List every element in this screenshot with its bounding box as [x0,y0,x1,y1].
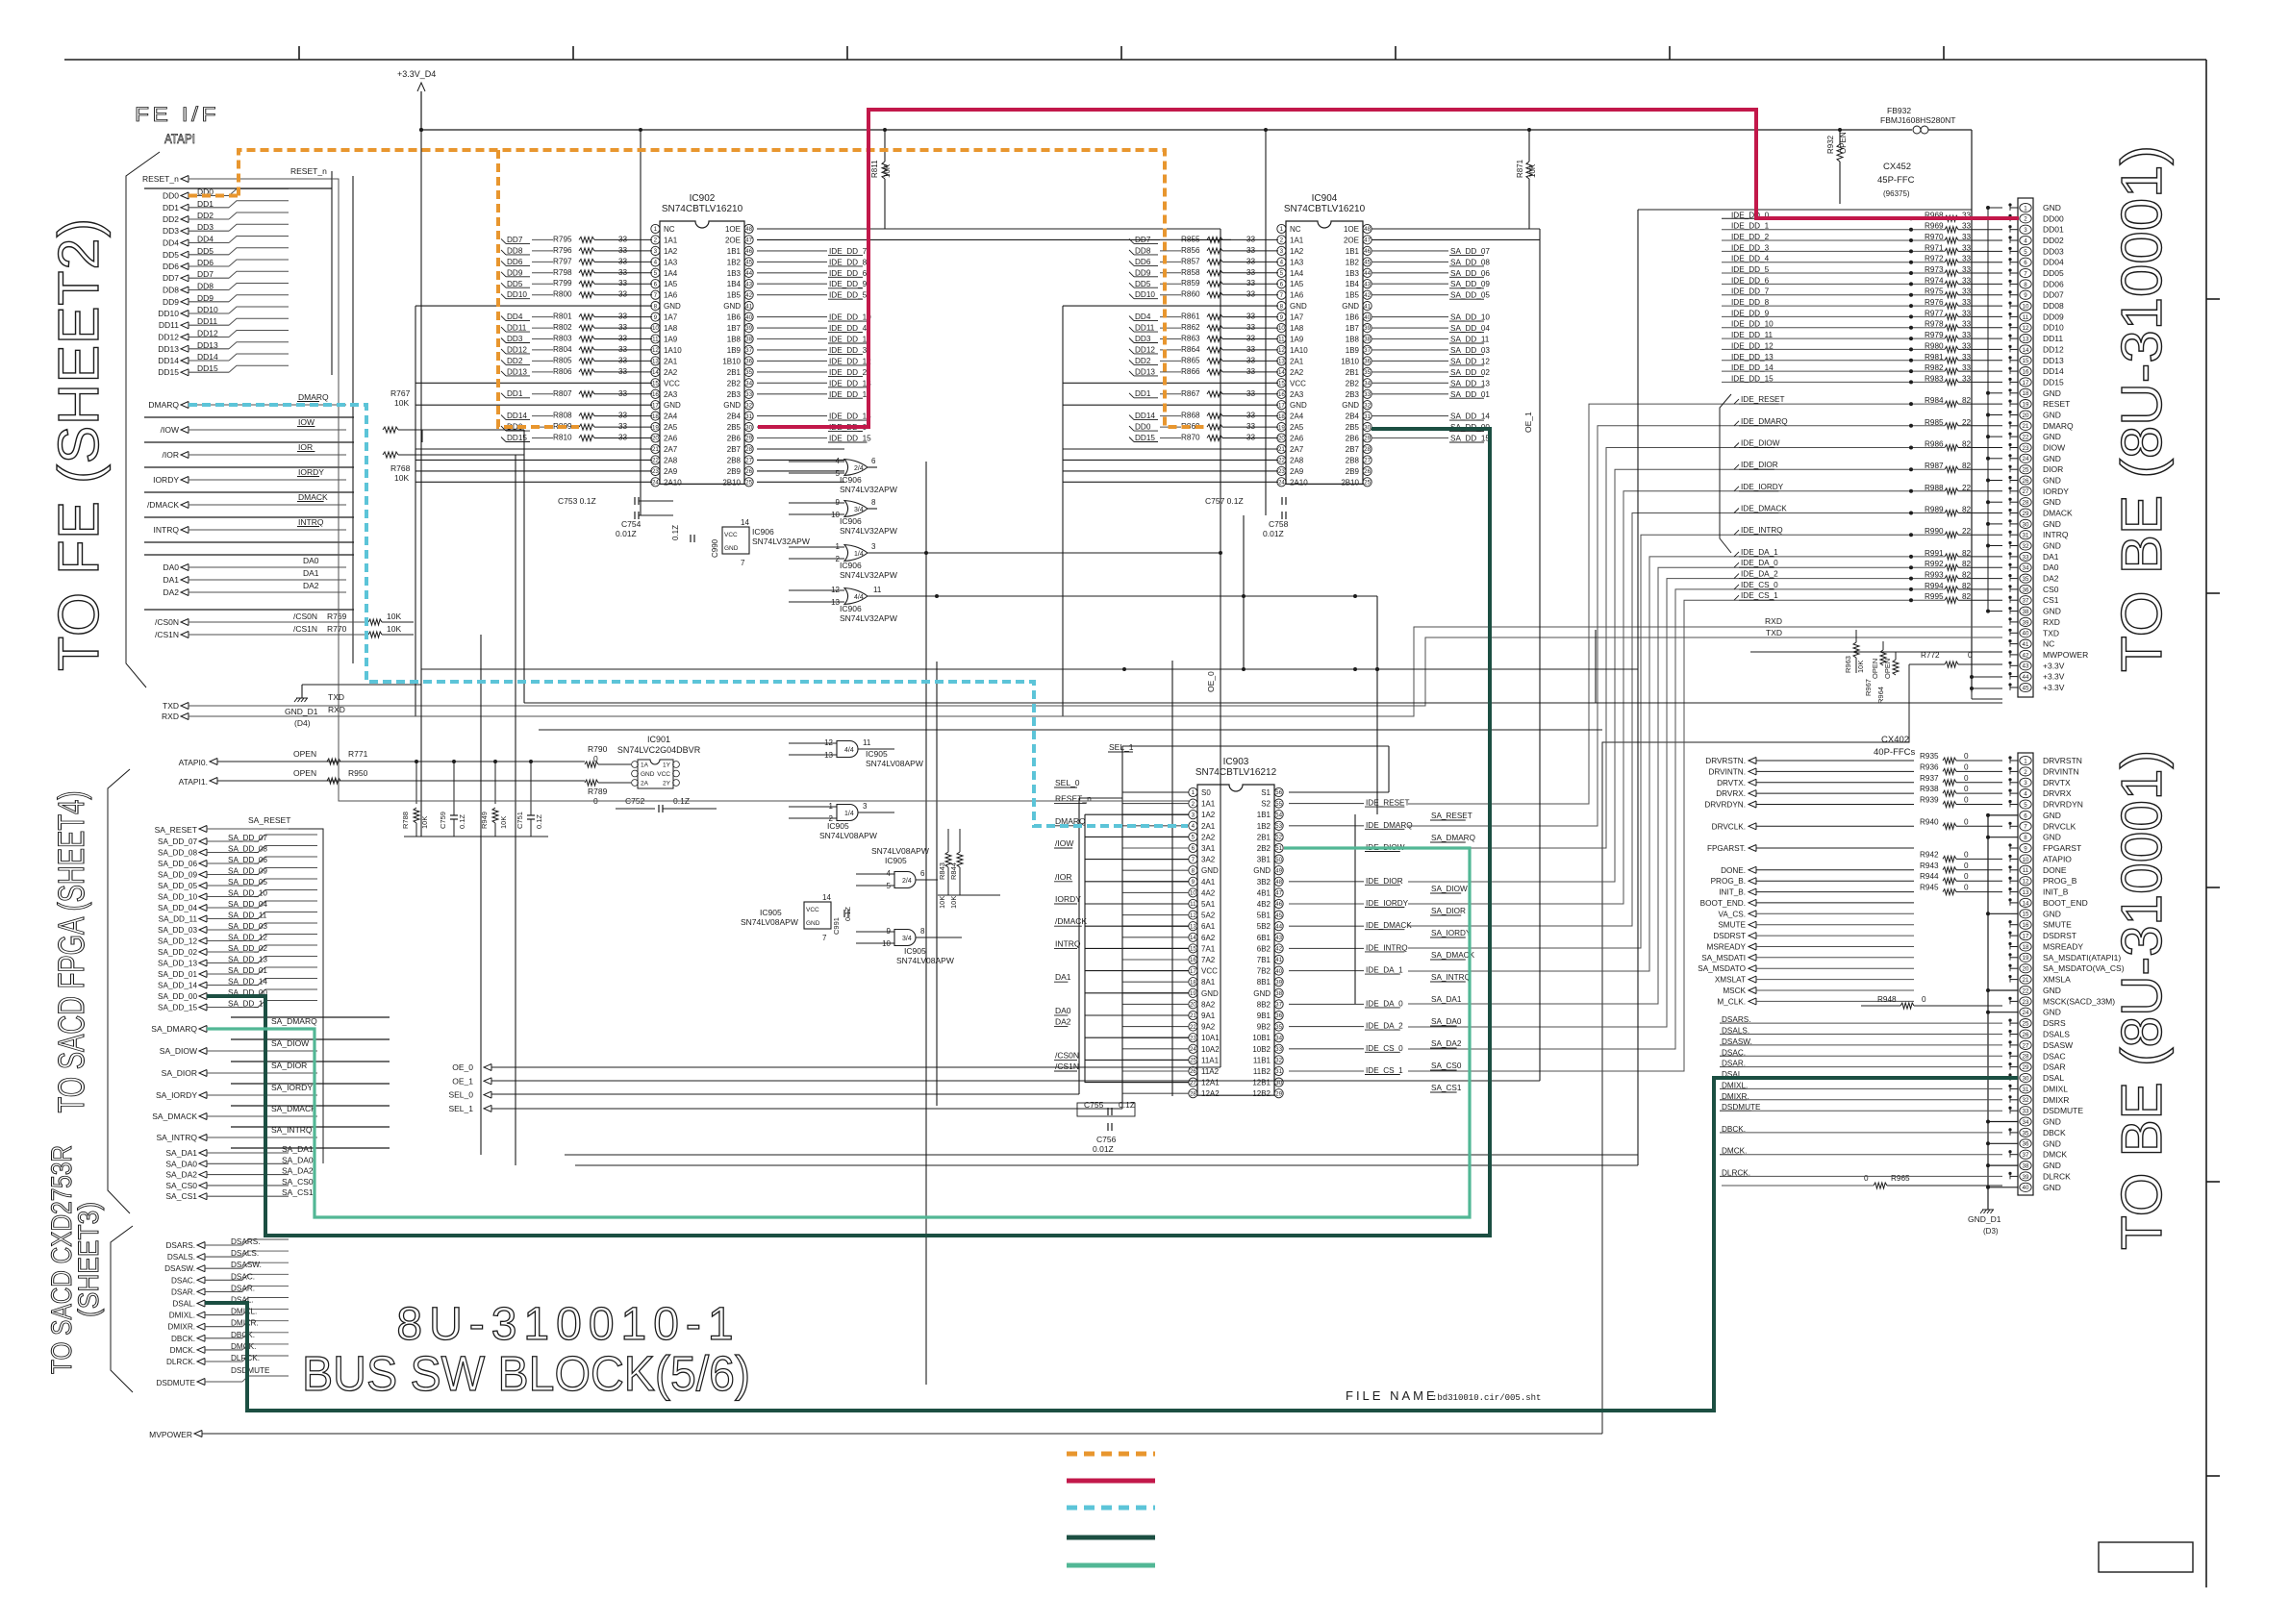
svg-text:10: 10 [1278,325,1285,332]
svg-text:INIT_B: INIT_B [2043,887,2069,897]
svg-text:21: 21 [2023,423,2029,430]
svg-text:NC: NC [2043,639,2054,649]
svg-text:8: 8 [1192,867,1195,874]
svg-text:26: 26 [745,468,752,475]
IC902 GND/VCC/2A7-2A10 stubs to rail [415,305,652,307]
CX452 pin 15 DD13 [2020,356,2031,364]
svg-text:GND: GND [723,302,741,311]
svg-text:5A1: 5A1 [1201,900,1216,909]
svg-text:53: 53 [1275,823,1282,830]
svg-text:16: 16 [652,391,659,398]
svg-text:DA0: DA0 [303,556,319,565]
IC905 gate 3/4 [894,930,916,946]
svg-text:DD2: DD2 [163,214,179,224]
svg-text:1A2: 1A2 [1290,247,1304,256]
CX402 pin 26 DSALS [2020,1030,2031,1038]
C991 0.1Z [843,910,845,917]
CX452 pin 21 DMARQ [2020,421,2031,430]
svg-text:IDE_INTRQ: IDE_INTRQ [1366,943,1408,952]
svg-text:1A1: 1A1 [1201,800,1216,809]
svg-text:SA_DD_12: SA_DD_12 [228,934,267,942]
CX402 pin 34 GND [2020,1117,2031,1126]
svg-text:42: 42 [1364,292,1371,299]
svg-text:GND: GND [2043,1008,2061,1017]
svg-text:SA_DD_09: SA_DD_09 [1450,280,1490,288]
svg-text:R855: R855 [1181,235,1200,243]
svg-text:S2: S2 [1261,800,1271,809]
svg-text:31: 31 [2023,533,2029,539]
svg-text:SA_DD_03: SA_DD_03 [1450,346,1490,355]
svg-text:IDE_DD_14: IDE_DD_14 [1731,363,1774,372]
svg-text:DD15: DD15 [2043,377,2064,387]
svg-text:0.1Z: 0.1Z [671,525,680,540]
svg-text:28: 28 [1364,446,1371,453]
svg-text:/CS1N: /CS1N [155,630,179,639]
CX402 pin 3 DRVTX [2020,778,2031,787]
svg-text:TXD: TXD [1766,628,1782,637]
svg-text:41: 41 [745,303,752,310]
svg-text:1B8: 1B8 [727,336,742,344]
svg-text:IC906: IC906 [840,561,862,570]
svg-text:1A1: 1A1 [1290,236,1304,244]
net label IDE_DD_10 [757,316,827,318]
svg-text:IDE_DD_4: IDE_DD_4 [1731,255,1770,263]
svg-text:IDE_DD_10: IDE_DD_10 [829,313,871,322]
CX402 pin 1 DRVRSTN [2020,756,2031,764]
svg-text:R965: R965 [1891,1174,1910,1183]
svg-text:40: 40 [2023,631,2029,637]
svg-text:(D3): (D3) [1983,1227,1999,1236]
svg-text:9: 9 [2024,845,2027,852]
CX402 pin 20 SA_MSDATO(VA_CS) [2020,964,2031,973]
svg-text:DD14: DD14 [158,356,179,365]
CX402 pin 29 DSAR [2020,1062,2031,1071]
svg-text:39: 39 [1364,325,1371,332]
svg-text:13: 13 [652,359,659,365]
CX402 pin 15 GND [2020,910,2031,918]
svg-text:R936: R936 [1920,762,1939,771]
svg-text:17: 17 [2023,380,2029,387]
svg-text:MWPOWER: MWPOWER [2043,650,2088,660]
svg-text:SN74CBTLV16210: SN74CBTLV16210 [1284,204,1366,214]
svg-text:DSRS: DSRS [2043,1018,2066,1028]
svg-text:34: 34 [1364,381,1371,387]
svg-text:R870: R870 [1181,434,1200,442]
svg-text:1B2: 1B2 [727,258,742,266]
svg-text:DD9: DD9 [163,297,179,307]
svg-text:SA_DD_12: SA_DD_12 [158,937,197,946]
svg-text:NC: NC [664,225,675,234]
CX402 pin 28 DSAC [2020,1052,2031,1061]
svg-text:IDE_DD_4: IDE_DD_4 [829,324,868,333]
vertical bus x=1409 GND link [1354,814,1356,1004]
svg-text:12: 12 [2023,879,2029,886]
net label SA_DD_08 [1371,261,1448,262]
svg-text:SA_DD_04: SA_DD_04 [1450,324,1490,333]
svg-text:SN74CBTLV16212: SN74CBTLV16212 [1195,767,1277,778]
net label SA_DD_10 [1371,316,1448,318]
svg-text:3B2: 3B2 [1257,878,1271,887]
drawing frame top border [64,59,2206,61]
svg-text:2B5: 2B5 [1346,423,1360,432]
svg-text:R858: R858 [1181,268,1200,277]
svg-text:1B9: 1B9 [727,346,742,355]
svg-text:25: 25 [1190,1058,1196,1064]
svg-text:R937: R937 [1920,774,1939,783]
svg-text:1A4: 1A4 [664,269,678,278]
svg-text:SA_INTRQ: SA_INTRQ [156,1133,197,1142]
svg-text:DA2: DA2 [2043,574,2059,584]
svg-text:C990: C990 [711,538,719,558]
IC903 left black feed rows [1085,813,1189,815]
svg-text:5: 5 [1280,270,1284,277]
svg-text:(SHEET3): (SHEET3) [73,1202,105,1317]
svg-text:23: 23 [2023,999,2029,1006]
svg-text:GND: GND [664,401,681,410]
svg-text:2B10: 2B10 [722,478,741,487]
svg-text:32: 32 [2023,1097,2029,1104]
CX452 pin 25 DIOR [2020,465,2031,474]
svg-text:/CS1N: /CS1N [1055,1062,1079,1071]
svg-text:GND_D1: GND_D1 [285,707,318,716]
svg-text:1A8: 1A8 [664,324,678,333]
svg-text:29: 29 [2023,1064,2029,1071]
svg-text:IDE_CS_0: IDE_CS_0 [1741,581,1778,589]
svg-text:2B9: 2B9 [727,467,742,476]
svg-text:3B1: 3B1 [1257,856,1271,864]
svg-text:DSAR.: DSAR. [231,1284,255,1292]
svg-text:43: 43 [745,281,752,287]
IC904 VCC feed vertical [1265,130,1267,515]
net label SA_DD_14 [1371,415,1448,417]
svg-text:IC905: IC905 [885,856,907,865]
CX452 pin 41 NC [2020,639,2031,648]
svg-text:IDE_DD_2: IDE_DD_2 [1731,233,1770,241]
svg-text:IC905: IC905 [904,946,926,956]
svg-text:33: 33 [1275,1046,1282,1053]
svg-text:1B1: 1B1 [1257,811,1271,819]
svg-text:DD15: DD15 [1135,434,1155,442]
svg-text:DRVRSTN.: DRVRSTN. [1705,757,1746,765]
svg-text:/IOW: /IOW [161,425,179,435]
net label IDE_DMACK [1289,925,1364,927]
svg-text:SA_DA0: SA_DA0 [282,1155,314,1164]
svg-text:DD5: DD5 [197,246,214,256]
svg-text:C756: C756 [1096,1135,1117,1144]
svg-text:DSALS.: DSALS. [231,1249,259,1258]
CX402 pin 18 MSREADY [2020,942,2031,951]
svg-text:1B1: 1B1 [1346,247,1360,256]
svg-text:RESET_n: RESET_n [1055,794,1092,804]
svg-text:9A2: 9A2 [1201,1023,1216,1032]
net label IDE_DD_6 [757,272,827,274]
svg-text:1B10: 1B10 [722,357,741,365]
svg-text:IDE_CS_0: IDE_CS_0 [1366,1044,1403,1053]
svg-text:5: 5 [2024,249,2027,256]
CX402 pin 2 DRVINTN [2020,767,2031,776]
svg-text:GND: GND [2043,203,2061,212]
net label IDE_DD_0 [757,426,827,428]
svg-text:GND: GND [2043,1117,2061,1127]
svg-text:14: 14 [741,518,749,527]
CX402 pin 10 ATAPIO [2020,855,2031,863]
CX402 pin 9 FPGARST [2020,843,2031,852]
svg-text:R940: R940 [1920,817,1939,826]
svg-text:DSAR: DSAR [2043,1062,2066,1072]
svg-text:IDE_DD_6: IDE_DD_6 [1731,276,1770,285]
net label SA_DD_11 [1371,338,1448,340]
svg-text:DA1: DA1 [1055,972,1071,982]
CX452 pin 14 DD12 [2020,345,2031,354]
svg-text:4/4: 4/4 [844,747,854,754]
svg-text:R942: R942 [1920,850,1939,859]
svg-text:DD06: DD06 [2043,279,2064,288]
svg-text:SA_DA2: SA_DA2 [282,1166,314,1176]
svg-text:SN74LV32APW: SN74LV32APW [840,526,897,536]
svg-text:41: 41 [2023,641,2029,648]
net label IDE_DD_9 [757,283,827,285]
svg-text:R798: R798 [553,268,572,277]
svg-text:DA0: DA0 [2043,562,2059,572]
net label SA_DD_07 [1371,250,1448,252]
svg-text:R797: R797 [553,257,572,265]
svg-text:7A2: 7A2 [1201,956,1216,964]
svg-text:55: 55 [1275,801,1282,808]
svg-text:DD15: DD15 [197,363,218,373]
IC906 power box [722,527,749,554]
CX402 pin 39 DLRCK [2020,1172,2031,1181]
svg-text:24: 24 [1278,480,1285,487]
svg-text:35: 35 [745,369,752,376]
svg-text:IDE_DA_2: IDE_DA_2 [1741,570,1778,579]
svg-text:NC: NC [1290,225,1301,234]
svg-text:39: 39 [1275,979,1282,986]
svg-text:DD3: DD3 [507,335,523,343]
CX452 pin 9 DD07 [2020,290,2031,299]
svg-text:2A5: 2A5 [1290,423,1304,432]
svg-text:DD9: DD9 [507,268,523,277]
svg-text:1B10: 1B10 [1341,357,1359,365]
svg-text:0: 0 [1964,884,1969,892]
svg-text:2B8: 2B8 [727,456,742,464]
svg-text:SA_DD_04: SA_DD_04 [228,900,267,909]
svg-text:26: 26 [1364,468,1371,475]
svg-text:DD4: DD4 [507,312,523,321]
svg-text:IDE_DD_12: IDE_DD_12 [1731,341,1774,350]
op-amp/IC body IC902 [660,221,744,484]
svg-text:ATAPI: ATAPI [164,131,195,146]
svg-text:DSDMUTE: DSDMUTE [157,1379,196,1387]
svg-text:8: 8 [920,927,925,936]
svg-text:DMIXL.: DMIXL. [231,1308,257,1316]
svg-text:SA_DD_02: SA_DD_02 [1450,368,1490,377]
svg-text:MVPOWER: MVPOWER [149,1430,192,1439]
svg-text:4B2: 4B2 [1257,900,1271,909]
CX402 pin 27 DSASW [2020,1040,2031,1049]
svg-text:DLRCK.: DLRCK. [166,1358,195,1366]
svg-text:DSAL.: DSAL. [172,1300,195,1309]
GND stub wires CX452 [1988,207,2002,209]
CX452 pin 18 GND [2020,388,2031,397]
svg-text:2A2: 2A2 [1201,833,1216,841]
svg-text:GND: GND [2043,833,2061,842]
svg-text:SA_DD_14: SA_DD_14 [228,978,267,987]
svg-text:12: 12 [652,347,659,354]
svg-text:2A8: 2A8 [664,456,678,464]
svg-text:SA_DD_15: SA_DD_15 [158,1004,197,1012]
svg-text:18: 18 [1190,979,1196,986]
svg-text:36: 36 [2023,1141,2029,1148]
svg-text:10K: 10K [387,612,401,621]
svg-text:IOW: IOW [298,417,315,427]
svg-text:DD11: DD11 [197,316,217,326]
svg-text:3: 3 [871,542,876,551]
svg-text:9: 9 [2024,292,2027,299]
svg-text:R770: R770 [327,624,347,634]
svg-text:DD0: DD0 [1135,423,1151,432]
svg-text:6: 6 [1192,845,1195,852]
svg-text:5B1: 5B1 [1257,912,1271,920]
svg-text:+3.3V: +3.3V [2043,661,2065,670]
CX402 pin 35 DBCK [2020,1128,2031,1137]
svg-text:C757 0.1Z: C757 0.1Z [1205,496,1244,506]
svg-text:45P-FFC: 45P-FFC [1877,175,1915,186]
svg-text:10A2: 10A2 [1201,1045,1220,1054]
svg-text:1OE: 1OE [1344,225,1359,234]
svg-text:SA_DD_00: SA_DD_00 [158,992,197,1001]
bus separator [144,187,332,189]
svg-text:GND: GND [2043,497,2061,507]
svg-text:SA_DD_14: SA_DD_14 [158,982,197,990]
svg-text:SA_DD_07: SA_DD_07 [228,834,267,842]
svg-text:R861: R861 [1181,312,1200,321]
svg-text:19: 19 [1190,990,1196,997]
RESET_n route into IC903 [332,179,1189,801]
net label SA_DD_15 [1371,437,1448,439]
net label IDE_CS_0 [1289,1048,1364,1050]
svg-text:1B2: 1B2 [1346,258,1360,266]
svg-text:2: 2 [1280,237,1284,244]
svg-text:IDE_DD_10: IDE_DD_10 [1731,320,1774,329]
svg-text:17: 17 [1278,402,1285,409]
svg-text:IDE_DIOR: IDE_DIOR [1741,461,1778,469]
svg-text:1A10: 1A10 [1290,346,1308,355]
svg-text:VCC: VCC [664,379,680,387]
svg-text:45: 45 [2023,685,2029,691]
svg-text:DA2: DA2 [303,581,319,590]
svg-text:C753 0.1Z: C753 0.1Z [558,496,596,506]
svg-text:DD5: DD5 [163,250,179,260]
svg-text:DD12: DD12 [2043,344,2064,354]
svg-text:0: 0 [593,754,598,763]
CX452 pin 2 DD00 [2020,214,2031,223]
svg-text::bd310010.cir/005.sht: :bd310010.cir/005.sht [1432,1393,1541,1403]
CX452 bundle bracket [1720,394,1731,553]
svg-text:DMARQ: DMARQ [298,392,329,402]
svg-text:6: 6 [654,281,658,287]
svg-text:R867: R867 [1181,389,1200,398]
svg-text:DSASW.: DSASW. [231,1261,262,1269]
svg-text:14: 14 [822,893,831,902]
svg-text:GND: GND [1201,989,1219,998]
svg-text:SN74LV32APW: SN74LV32APW [840,485,897,494]
svg-text:7: 7 [1280,292,1284,299]
wire /IOW to rail [414,429,524,431]
svg-text:8: 8 [871,498,876,507]
svg-text:DRVRDYN.: DRVRDYN. [1704,801,1746,810]
svg-text:/IOR: /IOR [163,450,179,460]
svg-text:SA_DMACK: SA_DMACK [152,1112,197,1121]
net label IDE_DD_2 [757,371,827,373]
svg-text:14: 14 [2023,900,2029,907]
svg-text:20: 20 [1190,1002,1196,1009]
svg-text:11: 11 [873,586,882,594]
svg-text:R807: R807 [553,389,572,398]
svg-text:9: 9 [1280,314,1284,321]
svg-text:21: 21 [1278,446,1285,453]
svg-text:R871: R871 [1516,159,1524,178]
svg-text:11: 11 [863,738,871,747]
svg-text:24: 24 [2023,1010,2029,1016]
net label IDE_DMARQ [1289,825,1364,827]
svg-text:SA_DA2: SA_DA2 [1431,1039,1462,1048]
svg-text:CX402: CX402 [1881,735,1909,745]
CX402 pin 31 DMIXL [2020,1085,2031,1093]
svg-text:DBCK.: DBCK. [171,1335,195,1343]
svg-text:16: 16 [2023,369,2029,376]
svg-text:32: 32 [745,402,752,409]
svg-text:17: 17 [652,402,659,409]
svg-text:2A10: 2A10 [1290,478,1308,487]
svg-text:DLRCK: DLRCK [2043,1171,2071,1181]
svg-text:IDE_DD_1: IDE_DD_1 [1731,222,1770,231]
svg-text:33: 33 [745,391,752,398]
svg-text:2A1: 2A1 [1290,357,1304,365]
svg-text:1A9: 1A9 [1290,336,1304,344]
svg-text:DMARQ: DMARQ [148,400,179,410]
CX452 pin 26 GND [2020,476,2031,485]
svg-text:DD14: DD14 [1135,412,1155,420]
svg-text:37: 37 [1275,1002,1282,1009]
svg-text:DA2: DA2 [1055,1017,1071,1027]
svg-text:SN74LV32APW: SN74LV32APW [840,570,897,580]
svg-text:C754: C754 [621,519,642,529]
net label SA_DD_06 [1371,272,1448,274]
svg-text:IDE_DMACK: IDE_DMACK [1741,505,1787,513]
svg-text:SA_DD_13: SA_DD_13 [228,956,267,964]
svg-text:DD05: DD05 [2043,268,2064,278]
svg-text:42: 42 [2023,652,2029,659]
svg-text:DD12: DD12 [197,329,218,338]
svg-text:GND: GND [2043,432,2061,441]
svg-text:DA0: DA0 [163,562,179,572]
CX402 pin 19 SA_MSDATI(ATAPI1) [2020,953,2031,962]
svg-text:30: 30 [2023,521,2029,528]
net label SA_DD_09 [1371,283,1448,285]
svg-text:44: 44 [2023,674,2029,681]
svg-text:SN74LV08APW: SN74LV08APW [866,759,923,768]
svg-text:1B3: 1B3 [727,269,742,278]
svg-text:VCC: VCC [1290,379,1306,387]
svg-text:TXD: TXD [163,701,179,711]
net label IDE_DIOR [1289,881,1364,883]
svg-text:0.1Z: 0.1Z [843,907,852,921]
svg-text:IDE_CS_1: IDE_CS_1 [1741,591,1778,600]
svg-text:25: 25 [1364,480,1371,487]
svg-text:DD7: DD7 [1135,236,1151,244]
svg-text:DIOW: DIOW [2043,443,2065,453]
svg-text:4: 4 [654,260,658,266]
